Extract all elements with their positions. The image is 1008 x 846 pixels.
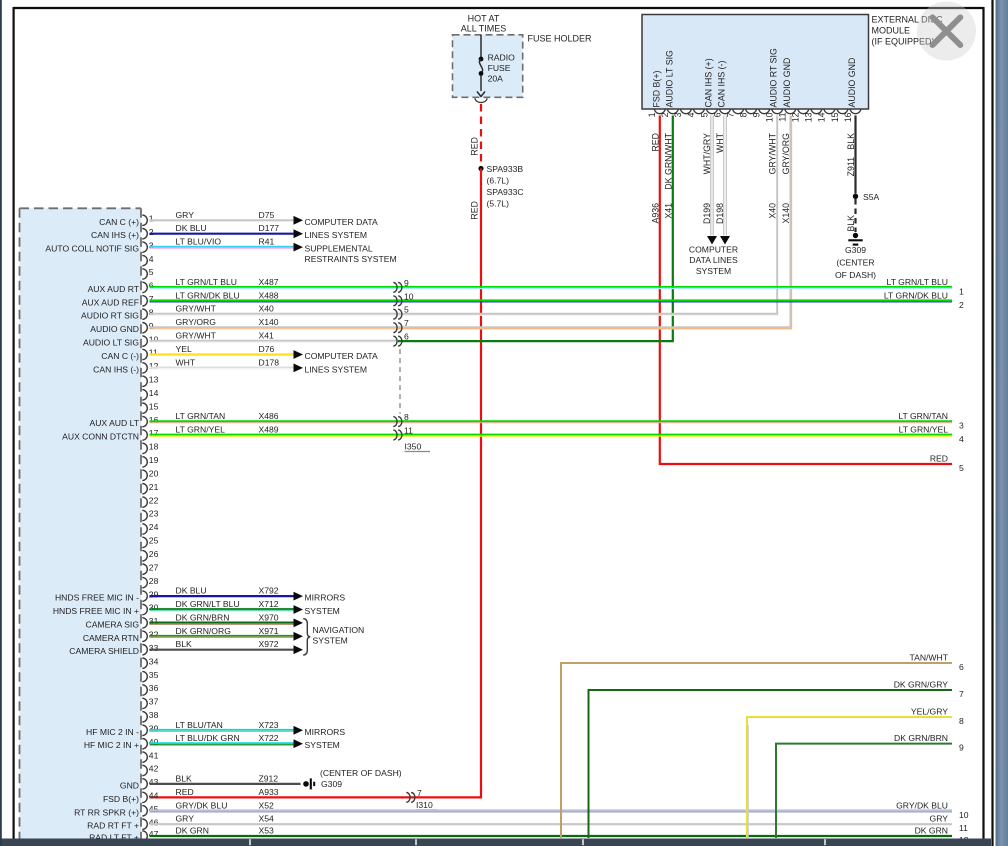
- radio connector pin 37: [142, 698, 147, 708]
- svg-text:11: 11: [959, 823, 968, 833]
- radio connector pin 20: [142, 470, 147, 480]
- wire pin 10 GRY/WHT joins DK GRN/WHT to external disc module pin 2: [150, 340, 399, 342]
- svg-text:5: 5: [404, 305, 409, 315]
- radio connector pin 29: [142, 591, 147, 601]
- svg-text:GRY: GRY: [176, 814, 195, 824]
- svg-text:8: 8: [404, 412, 409, 422]
- svg-text:DATA LINES: DATA LINES: [689, 255, 738, 265]
- svg-text:13: 13: [149, 375, 159, 385]
- radio connector pin 11: [142, 349, 147, 359]
- svg-text:LT BLU/TAN: LT BLU/TAN: [176, 720, 223, 730]
- svg-text:HF MIC 2 IN +: HF MIC 2 IN +: [84, 740, 139, 750]
- wire BLK dashed from S5A to ground: [854, 199, 856, 232]
- svg-text:18: 18: [149, 442, 159, 452]
- wire pin 32 DK GRN/ORG: [150, 635, 294, 637]
- svg-text:SPA933B: SPA933B: [487, 164, 524, 174]
- svg-text:X52: X52: [259, 800, 275, 810]
- svg-text:(CENTER: (CENTER: [836, 258, 874, 268]
- svg-text:2: 2: [660, 112, 670, 117]
- svg-text:7: 7: [959, 689, 964, 699]
- wire from HOT AT ALL TIMES into fuse: [480, 35, 482, 58]
- wire DK GRN/BRN to right edge row 9: [776, 744, 952, 838]
- svg-text:AUX AUD RT: AUX AUD RT: [88, 284, 140, 294]
- svg-text:TAN/WHT: TAN/WHT: [909, 653, 948, 663]
- svg-text:AUDIO RT SIG: AUDIO RT SIG: [769, 48, 779, 107]
- svg-text:LT GRN/YEL: LT GRN/YEL: [899, 425, 949, 435]
- svg-text:D199: D199: [702, 203, 712, 224]
- svg-text:RED: RED: [930, 454, 948, 464]
- svg-text:22: 22: [149, 495, 159, 505]
- radio connector pin 25: [142, 537, 147, 547]
- svg-text:X140: X140: [781, 203, 791, 224]
- svg-text:13: 13: [804, 112, 814, 122]
- svg-text:42: 42: [149, 764, 159, 774]
- svg-text:HF MIC 2 IN -: HF MIC 2 IN -: [86, 727, 139, 737]
- svg-text:47: 47: [149, 829, 159, 839]
- svg-text:25: 25: [149, 536, 159, 546]
- wire pin 45 GRY/DK BLU to right edge row 10: [150, 809, 953, 811]
- wire pin 31 DK GRN/BRN to navigation system: [150, 621, 294, 623]
- radio connector pin 22: [142, 497, 147, 507]
- svg-text:MODULE: MODULE: [872, 26, 911, 36]
- close button: [917, 2, 976, 61]
- svg-text:X41: X41: [663, 203, 673, 219]
- svg-text:BLK: BLK: [846, 215, 856, 232]
- svg-text:6: 6: [404, 332, 409, 342]
- svg-text:RESTRAINTS SYSTEM: RESTRAINTS SYSTEM: [305, 254, 397, 264]
- svg-text:GND: GND: [120, 780, 139, 790]
- svg-text:RAD RT FT +: RAD RT FT +: [87, 821, 139, 831]
- svg-text:WHT: WHT: [715, 132, 725, 153]
- fuse holder box: [453, 35, 523, 98]
- svg-text:SUPPLEMENTAL: SUPPLEMENTAL: [305, 244, 373, 254]
- svg-text:1: 1: [149, 214, 154, 224]
- svg-text:(CENTER OF DASH): (CENTER OF DASH): [320, 768, 402, 778]
- svg-text:CAN IHS (-): CAN IHS (-): [717, 61, 727, 108]
- radio connector pin 1: [142, 215, 147, 225]
- svg-text:AUX CONN DTCTN: AUX CONN DTCTN: [62, 432, 139, 442]
- svg-text:X489: X489: [259, 425, 279, 435]
- svg-text:DK GRN/WHT: DK GRN/WHT: [663, 132, 673, 189]
- radio connector pin 31: [142, 618, 147, 628]
- radio connector pin 3: [142, 242, 147, 252]
- svg-text:AUDIO LT SIG: AUDIO LT SIG: [83, 338, 139, 348]
- wire pin 30 DK GRN/LT BLU: [150, 608, 294, 610]
- svg-text:X971: X971: [259, 626, 279, 636]
- svg-text:LT GRN/DK BLU: LT GRN/DK BLU: [884, 290, 948, 300]
- svg-text:S5A: S5A: [863, 192, 880, 202]
- wire pin 33 BLK: [150, 649, 294, 651]
- svg-text:15: 15: [149, 401, 159, 411]
- wire pin 39 LT BLU/TAN to mirrors system: [150, 729, 294, 731]
- svg-text:I310: I310: [416, 800, 433, 810]
- svg-text:COMPUTER DATA: COMPUTER DATA: [305, 351, 378, 361]
- svg-text:X722: X722: [259, 733, 279, 743]
- radio connector pin 46: [142, 819, 147, 829]
- radio connector pin 42: [142, 765, 147, 775]
- svg-text:DK GRN: DK GRN: [915, 826, 948, 836]
- svg-text:RED: RED: [650, 133, 660, 152]
- radio connector pin 13: [142, 376, 147, 386]
- arrow pin 31: [294, 619, 304, 628]
- radio connector pin 47: [142, 831, 147, 841]
- navigation system brace: [303, 619, 310, 655]
- svg-text:21: 21: [149, 482, 159, 492]
- radio connector pin 34: [142, 658, 147, 668]
- arrow pin 1: [294, 216, 304, 225]
- wire pin 1 GRY to computer data lines system: [150, 219, 294, 221]
- svg-text:10: 10: [765, 112, 775, 122]
- radio connector pin 17: [142, 430, 147, 440]
- svg-text:2: 2: [149, 227, 154, 237]
- radio connector pin 40: [142, 739, 147, 749]
- svg-text:WHT/GRY: WHT/GRY: [702, 133, 712, 175]
- svg-text:AUTO COLL NOTIF SIG: AUTO COLL NOTIF SIG: [45, 244, 139, 254]
- svg-text:19: 19: [149, 455, 159, 465]
- ground G309 at radio (center of dash): [303, 781, 309, 787]
- svg-text:CAN IHS (+): CAN IHS (+): [704, 58, 714, 107]
- wire DK GRN/GRY to right edge row 7: [589, 690, 953, 838]
- external disc module pin 4: [693, 109, 704, 114]
- svg-text:41: 41: [149, 750, 159, 760]
- arrow pin 29: [294, 592, 304, 601]
- arrow pin 32: [294, 632, 304, 641]
- svg-text:5: 5: [959, 463, 964, 473]
- svg-text:A933: A933: [259, 787, 279, 797]
- svg-text:COMPUTER: COMPUTER: [689, 245, 738, 255]
- radio connector pin 45: [142, 806, 147, 816]
- svg-text:NAVIGATION: NAVIGATION: [313, 625, 365, 635]
- svg-text:BLK: BLK: [176, 773, 193, 783]
- svg-text:GRY: GRY: [930, 814, 949, 824]
- radio connector pin 7: [142, 296, 147, 306]
- external disc module pin 13: [811, 109, 822, 114]
- radio connector pin 14: [142, 390, 147, 400]
- svg-text:BLK: BLK: [176, 639, 193, 649]
- ground G309 (center of dash): [853, 233, 858, 238]
- svg-text:SYSTEM: SYSTEM: [305, 740, 340, 750]
- svg-text:43: 43: [149, 777, 159, 787]
- svg-text:X487: X487: [259, 277, 279, 287]
- svg-text:30: 30: [149, 603, 159, 613]
- fuse RADIO FUSE 20A: [479, 57, 484, 62]
- dashed connector line I350: [399, 349, 401, 414]
- radio connector pin 23: [142, 510, 147, 520]
- arrow pin 39: [294, 726, 304, 735]
- svg-text:7: 7: [404, 318, 409, 328]
- svg-text:GRY/WHT: GRY/WHT: [768, 132, 778, 174]
- svg-text:14: 14: [149, 388, 159, 398]
- svg-text:FSD B(+): FSD B(+): [103, 794, 139, 804]
- external disc module pin 1: [654, 109, 665, 114]
- inline connector pin 17 cavity 11, connector I350: [393, 430, 397, 440]
- svg-text:LT BLU/VIO: LT BLU/VIO: [176, 237, 222, 247]
- svg-text:MIRRORS: MIRRORS: [305, 727, 346, 737]
- radio connector pin 26: [142, 551, 147, 561]
- svg-text:FUSE HOLDER: FUSE HOLDER: [528, 34, 593, 44]
- svg-text:29: 29: [149, 589, 159, 599]
- svg-text:GRY/WHT: GRY/WHT: [176, 304, 217, 314]
- radio connector pin 27: [142, 564, 147, 574]
- svg-text:AUX AUD REF: AUX AUD REF: [82, 297, 139, 307]
- radio connector pin 44: [142, 792, 147, 802]
- svg-text:20: 20: [149, 469, 159, 479]
- arrow pin 12: [294, 364, 304, 373]
- inline connector pin 16 cavity 8: [393, 417, 397, 427]
- radio connector pin 9: [142, 323, 147, 333]
- svg-text:X723: X723: [259, 720, 279, 730]
- radio connector pin 19: [142, 457, 147, 467]
- svg-text:RED: RED: [470, 201, 480, 220]
- svg-text:33: 33: [149, 643, 159, 653]
- svg-text:LT GRN/LT BLU: LT GRN/LT BLU: [887, 277, 948, 287]
- arrow pin 3: [294, 243, 304, 252]
- radio connector pin 43: [142, 779, 147, 789]
- svg-text:38: 38: [149, 710, 159, 720]
- svg-text:11: 11: [404, 426, 413, 436]
- svg-text:Z912: Z912: [259, 773, 279, 783]
- svg-text:LT GRN/TAN: LT GRN/TAN: [176, 411, 226, 421]
- svg-text:Z911: Z911: [846, 157, 856, 177]
- svg-text:DK GRN/ORG: DK GRN/ORG: [176, 626, 232, 636]
- svg-text:YEL: YEL: [176, 344, 192, 354]
- svg-text:X140: X140: [259, 317, 279, 327]
- svg-text:(6.7L): (6.7L): [487, 176, 510, 186]
- svg-text:X486: X486: [259, 411, 279, 421]
- external disc module pin 12: [798, 109, 809, 114]
- svg-text:WHT: WHT: [176, 357, 196, 367]
- svg-text:R41: R41: [259, 237, 275, 247]
- svg-text:D178: D178: [259, 357, 280, 367]
- fuse holder output connector pin: [475, 98, 487, 102]
- svg-text:AUDIO LT SIG: AUDIO LT SIG: [664, 50, 674, 108]
- svg-text:A936: A936: [650, 203, 660, 224]
- inline connector pin 8 cavity 5: [393, 309, 397, 319]
- external disc module pin 6: [720, 109, 731, 114]
- svg-text:G309: G309: [321, 779, 342, 789]
- svg-text:37: 37: [149, 697, 159, 707]
- arrow pin 11: [294, 350, 304, 359]
- svg-text:5: 5: [699, 112, 709, 117]
- svg-text:GRY/DK BLU: GRY/DK BLU: [896, 800, 948, 810]
- svg-text:6: 6: [712, 112, 722, 117]
- arrow pin 40: [294, 739, 304, 748]
- svg-text:X41: X41: [259, 331, 275, 341]
- svg-text:X488: X488: [259, 290, 279, 300]
- external disc module pin 3: [680, 109, 691, 114]
- wire pin 3 LT BLU/VIO to supplemental restraints system: [150, 246, 294, 248]
- arrow pin 30: [294, 605, 304, 614]
- svg-text:23: 23: [149, 509, 159, 519]
- external disc module pin 10: [772, 109, 783, 114]
- svg-text:4: 4: [149, 254, 154, 264]
- svg-text:40: 40: [149, 737, 159, 747]
- svg-text:X53: X53: [259, 826, 275, 836]
- wire pin 6 LT GRN/LT BLU to right edge row 1: [150, 286, 953, 288]
- svg-text:X972: X972: [259, 639, 279, 649]
- svg-text:LT BLU/DK GRN: LT BLU/DK GRN: [176, 733, 240, 743]
- arrow to computer data lines system (pin 6): [720, 236, 730, 245]
- svg-text:LT GRN/DK BLU: LT GRN/DK BLU: [176, 290, 240, 300]
- svg-text:9: 9: [959, 743, 964, 753]
- svg-text:CAN IHS (-): CAN IHS (-): [93, 364, 139, 374]
- svg-text:GRY/ORG: GRY/ORG: [781, 133, 791, 175]
- wire pin 7 LT GRN/DK BLU to right edge row 2: [150, 299, 953, 301]
- svg-text:5: 5: [149, 267, 154, 277]
- svg-text:9: 9: [404, 278, 409, 288]
- svg-text:D177: D177: [259, 223, 280, 233]
- svg-text:28: 28: [149, 576, 159, 586]
- wire pin 40 LT BLU/DK GRN: [150, 742, 294, 744]
- svg-text:CAN C (+): CAN C (+): [99, 217, 139, 227]
- svg-text:HNDS FREE MIC IN +: HNDS FREE MIC IN +: [53, 606, 139, 616]
- radio connector pin 18: [142, 443, 147, 453]
- svg-text:DK GRN/BRN: DK GRN/BRN: [894, 733, 948, 743]
- radio connector pin 28: [142, 577, 147, 587]
- svg-text:DK GRN/LT BLU: DK GRN/LT BLU: [176, 599, 240, 609]
- svg-text:1: 1: [959, 286, 964, 296]
- svg-text:RT RR SPKR (+): RT RR SPKR (+): [74, 807, 139, 817]
- radio connector pin 4: [142, 255, 147, 265]
- radio connector pin 10: [142, 336, 147, 346]
- svg-text:SYSTEM: SYSTEM: [305, 606, 340, 616]
- svg-text:CAMERA SHIELD: CAMERA SHIELD: [69, 646, 139, 656]
- svg-text:X970: X970: [259, 612, 279, 622]
- radio connector pin 32: [142, 631, 147, 641]
- radio connector pin 15: [142, 403, 147, 413]
- fuse output arrow: [477, 92, 485, 97]
- svg-text:3: 3: [673, 112, 683, 117]
- wire RED dashed from fuse holder: [480, 104, 482, 166]
- wire pin 47 DK GRN to right edge row 12: [150, 835, 953, 837]
- radio connector pin 6: [142, 282, 147, 292]
- svg-text:4: 4: [686, 112, 696, 117]
- arrow pin 2: [294, 229, 304, 238]
- external disc module pin 2: [667, 109, 678, 114]
- svg-text:3: 3: [149, 240, 154, 250]
- svg-text:D198: D198: [715, 203, 725, 224]
- wire DK GRN/WHT from external disc module pin 2 joins radio pin 10 row: [398, 116, 673, 342]
- radio connector pin 33: [142, 645, 147, 655]
- radio connector pin 39: [142, 725, 147, 735]
- svg-text:FSD B(+): FSD B(+): [651, 71, 661, 108]
- svg-text:D76: D76: [259, 344, 275, 354]
- wire pin 8 GRY/WHT to external disc module pin 10: [150, 313, 778, 315]
- external disc module pin 5: [707, 109, 718, 114]
- svg-text:G309: G309: [845, 245, 866, 255]
- external disc module pin 9: [759, 109, 770, 114]
- inline connector pin 6 cavity 9: [393, 283, 397, 293]
- svg-text:COMPUTER DATA: COMPUTER DATA: [305, 217, 378, 227]
- svg-text:X40: X40: [259, 304, 275, 314]
- svg-text:YEL/GRY: YEL/GRY: [911, 707, 948, 717]
- svg-text:CAMERA RTN: CAMERA RTN: [83, 633, 139, 643]
- svg-text:I350: I350: [405, 442, 422, 452]
- svg-text:DK GRN/GRY: DK GRN/GRY: [894, 680, 949, 690]
- svg-text:16: 16: [843, 112, 853, 122]
- radio connector pin 35: [142, 671, 147, 681]
- svg-text:LT GRN/LT BLU: LT GRN/LT BLU: [176, 277, 237, 287]
- svg-text:GRY/WHT: GRY/WHT: [176, 331, 217, 341]
- svg-text:GRY/DK BLU: GRY/DK BLU: [176, 800, 228, 810]
- radio connector pin 21: [142, 484, 147, 494]
- wire pin 46 GRY to right edge row 11: [150, 823, 953, 825]
- wire BLK from external disc module pin 16 to splice S5A: [854, 116, 856, 194]
- svg-text:LT GRN/TAN: LT GRN/TAN: [898, 411, 948, 421]
- radio connector pin 8: [142, 309, 147, 319]
- svg-text:AUDIO GND: AUDIO GND: [847, 58, 857, 108]
- svg-text:AUDIO GND: AUDIO GND: [90, 324, 139, 334]
- inline connector pin 9 cavity 7: [393, 323, 397, 333]
- radio connector pin 5: [142, 269, 147, 279]
- svg-text:10: 10: [404, 291, 414, 301]
- svg-text:SYSTEM: SYSTEM: [313, 636, 348, 646]
- svg-text:11: 11: [778, 112, 788, 121]
- inline connector pin 7 cavity 10: [393, 296, 397, 306]
- splice S5A: [853, 194, 858, 199]
- svg-text:SYSTEM: SYSTEM: [696, 266, 731, 276]
- svg-text:X792: X792: [259, 586, 279, 596]
- svg-text:2: 2: [959, 300, 964, 310]
- svg-text:9: 9: [752, 112, 762, 117]
- svg-text:36: 36: [149, 683, 159, 693]
- svg-text:AUDIO GND: AUDIO GND: [782, 58, 792, 108]
- external disc module pin 7: [733, 109, 744, 114]
- wire pin 2 DK BLU: [150, 233, 294, 235]
- wire pin 12 WHT: [150, 366, 294, 368]
- svg-text:CAN C (-): CAN C (-): [101, 351, 139, 361]
- wire RED vertical from splice down to radio pin 44 row: [150, 169, 482, 798]
- svg-text:DK BLU: DK BLU: [176, 223, 207, 233]
- svg-text:6: 6: [959, 662, 964, 672]
- svg-text:LT GRN/YEL: LT GRN/YEL: [176, 425, 226, 435]
- svg-text:LINES SYSTEM: LINES SYSTEM: [305, 364, 368, 374]
- wire pin 9 GRY/ORG to external disc module pin 11: [150, 326, 791, 328]
- svg-text:44: 44: [149, 791, 159, 801]
- svg-text:14: 14: [817, 112, 827, 122]
- inline connector pin 44 cavity 7, connector I310: [406, 793, 410, 803]
- svg-text:DK GRN/BRN: DK GRN/BRN: [176, 612, 230, 622]
- svg-text:DK GRN: DK GRN: [176, 826, 209, 836]
- external disc module pin 14: [824, 109, 835, 114]
- radio connector pin 12: [142, 363, 147, 373]
- svg-text:CAMERA SIG: CAMERA SIG: [86, 619, 140, 629]
- svg-text:7: 7: [725, 112, 735, 117]
- svg-text:7: 7: [417, 788, 422, 798]
- svg-text:46: 46: [149, 817, 159, 827]
- radio connector pin 2: [142, 229, 147, 239]
- radio connector box: [20, 208, 142, 846]
- svg-text:34: 34: [149, 656, 159, 666]
- svg-text:4: 4: [959, 434, 964, 444]
- svg-text:AUDIO RT SIG: AUDIO RT SIG: [81, 311, 139, 321]
- wire GRY/ORG from external disc module pin 11 joins radio pin 9 row: [398, 116, 790, 328]
- radio connector pin 24: [142, 524, 147, 534]
- arrow to computer data lines system (pin 5): [707, 236, 717, 245]
- svg-text:20A: 20A: [488, 74, 504, 84]
- wire pin 29 DK BLU to mirrors system: [150, 595, 294, 597]
- svg-text:LINES SYSTEM: LINES SYSTEM: [305, 230, 368, 240]
- wire TAN/WHT to right edge row 6: [561, 663, 952, 838]
- radio connector pin 30: [142, 604, 147, 614]
- svg-text:MIRRORS: MIRRORS: [305, 593, 346, 603]
- external disc module pin 15: [837, 109, 848, 114]
- svg-text:8: 8: [738, 112, 748, 117]
- svg-text:RADIO: RADIO: [488, 53, 516, 63]
- svg-text:DK BLU: DK BLU: [176, 586, 207, 596]
- svg-text:(5.7L): (5.7L): [487, 199, 510, 209]
- svg-text:OF DASH): OF DASH): [835, 270, 876, 280]
